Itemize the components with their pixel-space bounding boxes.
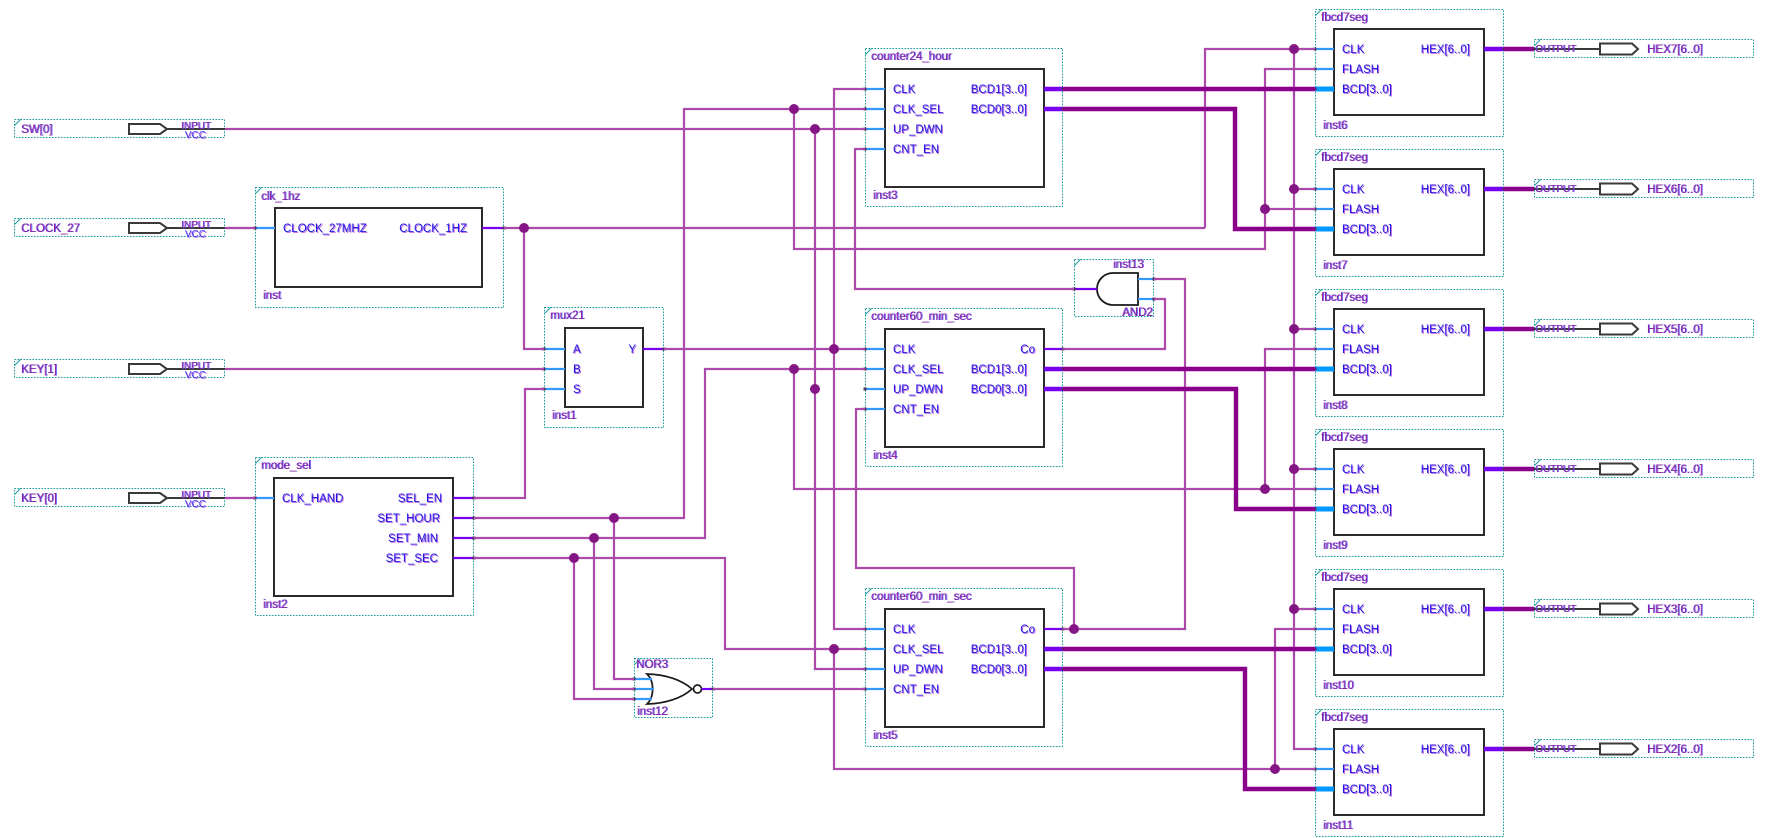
input pin KEY[0] [15,489,226,511]
svg-text:CLOCK_27MHZ: CLOCK_27MHZ [283,223,367,235]
svg-text:OUTPUT: OUTPUT [1535,604,1576,615]
bus inst5.BCD0 to inst11.BCD [1063,669,1315,789]
pin stub mux21.S [543,388,566,391]
wire net mux Y horizontal to inst4.CLK [664,348,865,350]
pin stub counter60_min_sec(inst5).UP_DWN [864,668,886,671]
svg-text:VCC: VCC [185,499,206,510]
svg-text:HEX7[6..0]: HEX7[6..0] [1647,44,1703,56]
wire net SET_SEC main run to inst5 CLK_SEL [474,558,865,649]
pin stub NOR3.in1 [633,678,653,681]
pin stub clk_1hz.CLOCK_1HZ [482,227,506,230]
svg-text:CLK_SEL: CLK_SEL [893,364,944,376]
wire net CLOCK_1HZ main horizontal [504,227,1205,229]
module mode_sel U:inst2 [256,458,474,616]
svg-text:inst13: inst13 [1113,259,1144,271]
pin stub inst9.FLASH [1314,488,1335,491]
pin stub clk_1hz.CLOCK_27MHZ [254,227,276,230]
svg-text:HEX5[6..0]: HEX5[6..0] [1647,324,1703,336]
svg-text:SW[0]: SW[0] [21,124,52,136]
svg-text:Y: Y [628,344,636,356]
junction SET_MIN node B [789,364,799,374]
bus HEX6 output [1504,187,1534,191]
pin stub mode_sel.SEL_EN [453,497,476,500]
bus stub inst4.BCD0 [1044,388,1065,391]
svg-text:CLOCK_1HZ: CLOCK_1HZ [399,223,467,235]
bus stub inst4.BCD1 [1044,368,1065,371]
svg-text:CLK_SEL: CLK_SEL [893,104,944,116]
pin stub counter60_min_sec(inst4).UP_DWN [864,388,886,391]
pin stub inst4.Co [1044,348,1065,351]
junction fbcd CLK node 1 [1289,44,1299,54]
svg-text:FLASH: FLASH [1342,344,1379,356]
output pin HEX5[6..0] [1534,320,1754,338]
svg-text:CLK: CLK [1342,324,1365,336]
svg-text:HEX4[6..0]: HEX4[6..0] [1647,464,1703,476]
wire net inst5.Co to AND2.in1 [1063,279,1185,629]
pin stub mode_sel.SET_HOUR [453,517,476,520]
pin stub mux21.Y [643,348,666,351]
wire CLOCK_27 to clk_1hz [225,227,255,229]
bus inst3.BCD1 to inst6.BCD [1063,87,1315,91]
svg-text:FLASH: FLASH [1342,204,1379,216]
svg-text:FLASH: FLASH [1342,624,1379,636]
svg-text:inst12: inst12 [637,706,668,718]
bus inst4.BCD1 to inst8.BCD [1063,367,1315,371]
wire net SET_MIN branch to minute FLASH displays [794,349,1315,489]
svg-text:BCD1[3..0]: BCD1[3..0] [971,84,1027,96]
wire net SW[0] riser x=815 feeding UP_DWN of inst4/inst5 [815,129,865,669]
wire net CLOCK_1HZ branch to mux21.A [524,228,544,349]
module clk_1hz U:inst [256,188,504,308]
pin stub mux21.A [543,348,566,351]
svg-text:OUTPUT: OUTPUT [1535,324,1576,335]
bus stub inst6.BCD [1314,88,1335,91]
wire net SW[0] horizontal to counters UP_DWN [225,128,865,130]
wire net SET_HOUR branch to hour FLASH displays [794,69,1315,249]
bus stub inst11.BCD [1314,788,1335,791]
svg-text:SEL_EN: SEL_EN [398,493,442,505]
bus stub inst5.BCD1 [1044,648,1065,651]
junction min FLASH node [1260,484,1270,494]
pin stub counter60_min_sec(inst4).CLK_SEL [864,368,886,371]
svg-text:CLK_SEL: CLK_SEL [893,644,944,656]
wire net mux Y riser x=834 to inst3.CLK and inst5.CLK [834,89,865,629]
svg-text:CLK: CLK [893,624,916,636]
module counter60_min_sec U:inst5 [866,589,1063,747]
svg-text:BCD1[3..0]: BCD1[3..0] [971,364,1027,376]
svg-text:A: A [573,344,581,356]
pin stub counter60_min_sec(inst5).CLK_SEL [864,648,886,651]
svg-text:BCD0[3..0]: BCD0[3..0] [971,104,1027,116]
junction SET_MIN node A [589,533,599,543]
svg-text:FLASH: FLASH [1342,64,1379,76]
svg-text:FLASH: FLASH [1342,764,1379,776]
svg-text:NOR3: NOR3 [636,659,668,671]
module fbcd7seg U:inst11 [1316,710,1504,837]
pin stub inst8.CLK [1314,328,1335,331]
pin stub inst5.Co [1044,628,1065,631]
pin stub inst8.FLASH [1314,348,1335,351]
svg-text:SET_MIN: SET_MIN [388,533,438,545]
svg-text:fbcd7seg: fbcd7seg [1321,712,1368,724]
svg-text:HEX3[6..0]: HEX3[6..0] [1647,604,1703,616]
wire net AND2 output to counter24 CNT_EN [855,149,1074,289]
junction fbcd CLK node 2 [1289,184,1299,194]
output pin HEX4[6..0] [1534,460,1754,478]
bus HEX7 output [1504,47,1534,51]
module mux21 U:inst1 [545,308,664,428]
input pin SW[0] [15,120,226,142]
input pin KEY[1] [15,360,226,382]
svg-text:OUTPUT: OUTPUT [1535,744,1576,755]
pin stub counter60_min_sec(inst5).CLK [864,628,886,631]
svg-text:inst10: inst10 [1323,680,1354,692]
svg-text:BCD[3..0]: BCD[3..0] [1342,644,1392,656]
svg-text:B: B [573,364,581,376]
bus stub inst10.BCD [1314,648,1335,651]
pin stub inst7.FLASH [1314,208,1335,211]
svg-text:OUTPUT: OUTPUT [1535,184,1576,195]
bus HEX5 output [1504,327,1534,331]
svg-text:CLK: CLK [1342,44,1365,56]
svg-text:UP_DWN: UP_DWN [893,384,943,396]
svg-text:HEX[6..0]: HEX[6..0] [1421,464,1470,476]
svg-text:counter60_min_sec: counter60_min_sec [871,591,972,603]
svg-text:BCD[3..0]: BCD[3..0] [1342,84,1392,96]
svg-text:Co: Co [1020,344,1035,356]
pin stub counter60_min_sec(inst4).CLK [864,348,886,351]
gate NOR3 U:inst12 [635,659,713,719]
pin stub AND2.out [1073,288,1098,291]
svg-text:BCD0[3..0]: BCD0[3..0] [971,664,1027,676]
bus stub counter24_hour.BCD0 [1044,108,1065,111]
wire net inst5.Co branch to inst4.CNT_EN [856,409,1074,629]
junction sec Co node [1069,624,1079,634]
output pin HEX6[6..0] [1534,180,1754,198]
svg-text:CLK: CLK [893,84,916,96]
pin stub inst10.FLASH [1314,628,1335,631]
pin stub counter24_hour.CLK_SEL [864,108,886,111]
svg-text:CLK: CLK [1342,184,1365,196]
svg-text:inst1: inst1 [552,410,576,422]
svg-text:counter60_min_sec: counter60_min_sec [871,311,972,323]
svg-text:clk_1hz: clk_1hz [261,191,300,203]
svg-text:BCD[3..0]: BCD[3..0] [1342,364,1392,376]
wire net SET_SEC branch to NOR3.in3 [574,558,634,699]
pin stub AND2.in2 [1138,298,1156,301]
pin stub counter60_min_sec(inst4).CNT_EN [864,408,886,411]
junction fbcd CLK node 4 [1289,464,1299,474]
svg-text:SET_HOUR: SET_HOUR [377,513,440,525]
module fbcd7seg U:inst9 [1316,430,1504,557]
svg-text:BCD[3..0]: BCD[3..0] [1342,784,1392,796]
pin stub mode_sel.CLK_HAND [254,497,275,500]
bus stub counter24_hour.BCD1 [1044,88,1065,91]
module fbcd7seg U:inst10 [1316,570,1504,697]
svg-text:HEX[6..0]: HEX[6..0] [1421,184,1470,196]
module fbcd7seg U:inst6 [1316,10,1504,137]
pin stub inst6.FLASH [1314,68,1335,71]
pin stub counter24_hour.CNT_EN [864,148,886,151]
wire net SET_HOUR main run to counter24 CLK_SEL [474,109,865,518]
wire net SET_SEC branch to second FLASH displays [834,629,1315,769]
bus inst4.BCD0 to inst9.BCD [1063,389,1315,509]
pin stub counter60_min_sec(inst5).CNT_EN [864,688,886,691]
bus stub inst8.BCD [1314,368,1335,371]
gate AND2 U:inst13 (mirrored, output left) [1075,259,1154,319]
svg-text:fbcd7seg: fbcd7seg [1321,432,1368,444]
pin stub inst10.CLK [1314,608,1335,611]
svg-text:HEX6[6..0]: HEX6[6..0] [1647,184,1703,196]
junction SET_SEC node A [569,553,579,563]
svg-text:inst5: inst5 [873,730,897,742]
bus HEX2 output [1504,747,1534,751]
svg-text:UP_DWN: UP_DWN [893,124,943,136]
pin stub counter24_hour.CLK [864,88,886,91]
svg-text:inst3: inst3 [873,190,897,202]
junction SET_HOUR node A [609,513,619,523]
wire net SET_MIN main run to inst4 CLK_SEL [474,369,865,538]
svg-text:CLK: CLK [1342,464,1365,476]
bus stub inst7.HEX [1484,188,1506,191]
svg-text:CLK: CLK [1342,604,1365,616]
wire KEY[1] to mux21.B [225,368,544,370]
pin stub mode_sel.SET_SEC [453,557,476,560]
svg-text:BCD0[3..0]: BCD0[3..0] [971,384,1027,396]
svg-text:CLK: CLK [1342,744,1365,756]
bus stub inst9.HEX [1484,468,1506,471]
bus stub inst5.BCD0 [1044,668,1065,671]
bus stub inst6.HEX [1484,48,1506,51]
svg-text:inst6: inst6 [1323,120,1347,132]
svg-text:UP_DWN: UP_DWN [893,664,943,676]
pin stub AND2.in1 [1138,278,1156,281]
svg-text:VCC: VCC [185,229,206,240]
wire net SEL_EN to mux21.S [474,389,544,498]
output pin HEX2[6..0] [1534,740,1754,758]
bus stub inst11.HEX [1484,748,1506,751]
svg-text:FLASH: FLASH [1342,484,1379,496]
bus HEX4 output [1504,467,1534,471]
svg-text:counter24_hour: counter24_hour [871,51,952,63]
svg-text:BCD[3..0]: BCD[3..0] [1342,504,1392,516]
wire net NOR3 output to inst5.CNT_EN [713,688,865,690]
svg-text:inst: inst [263,290,282,302]
output pin HEX3[6..0] [1534,600,1754,618]
svg-text:fbcd7seg: fbcd7seg [1321,292,1368,304]
svg-text:fbcd7seg: fbcd7seg [1321,572,1368,584]
junction SET_HOUR node B [789,104,799,114]
svg-text:CNT_EN: CNT_EN [893,144,939,156]
wire net SET_HOUR branch to NOR3.in1 [614,518,634,679]
wire net CLOCK_1HZ riser to fbcd7seg CLK row [1205,49,1315,228]
svg-text:inst8: inst8 [1323,400,1347,412]
bus stub inst7.BCD [1314,228,1335,231]
junction CLK node [829,344,839,354]
pin stub mode_sel.SET_MIN [453,537,476,540]
wire net CLOCK_1HZ distribution x=1294 to all fbcd7seg CLK [1294,49,1315,749]
svg-text:VCC: VCC [185,130,206,141]
junction fbcd CLK node 3 [1289,324,1299,334]
pin stub NOR3.in3 [633,698,653,701]
junction fbcd CLK node 5 [1289,604,1299,614]
pin stub inst7.CLK [1314,188,1335,191]
svg-text:mux21: mux21 [550,310,585,322]
junction SW[0] node A [810,124,820,134]
svg-text:HEX[6..0]: HEX[6..0] [1421,744,1470,756]
module fbcd7seg U:inst8 [1316,290,1504,417]
pin stub inst6.CLK [1314,48,1335,51]
svg-text:Co: Co [1020,624,1035,636]
bus HEX3 output [1504,607,1534,611]
svg-text:fbcd7seg: fbcd7seg [1321,12,1368,24]
svg-text:OUTPUT: OUTPUT [1535,44,1576,55]
module counter24_hour U:inst3 [866,49,1063,207]
wire net inst4.Co to AND2.in2 [1063,299,1165,349]
svg-text:KEY[0]: KEY[0] [21,493,57,505]
svg-text:S: S [573,384,581,396]
junction hour FLASH node [1260,204,1270,214]
svg-text:HEX[6..0]: HEX[6..0] [1421,44,1470,56]
bus inst5.BCD1 to inst10.BCD [1063,647,1315,651]
wire net SET_MIN branch to NOR3.in2 [594,538,634,689]
svg-text:inst9: inst9 [1323,540,1347,552]
svg-text:CLOCK_27: CLOCK_27 [21,223,80,235]
output pin HEX7[6..0] [1534,40,1754,58]
svg-text:OUTPUT: OUTPUT [1535,464,1576,475]
junction CLOCK_1HZ node [519,223,529,233]
svg-text:HEX[6..0]: HEX[6..0] [1421,604,1470,616]
svg-text:inst7: inst7 [1323,260,1347,272]
pin stub NOR3.in2 [633,688,655,691]
svg-text:fbcd7seg: fbcd7seg [1321,152,1368,164]
pin stub counter24_hour.UP_DWN [864,128,886,131]
svg-text:BCD[3..0]: BCD[3..0] [1342,224,1392,236]
junction sec FLASH node [1270,764,1280,774]
module counter60_min_sec U:inst4 [866,309,1063,467]
pin stub inst9.CLK [1314,468,1335,471]
module fbcd7seg U:inst7 [1316,150,1504,277]
wire KEY[0] to mode_sel.CLK_HAND [225,497,255,499]
pin stub inst11.FLASH [1314,768,1335,771]
pin stub inst11.CLK [1314,748,1335,751]
bus stub inst9.BCD [1314,508,1335,511]
svg-text:AND2: AND2 [1122,307,1153,319]
svg-text:VCC: VCC [185,370,206,381]
bus stub inst10.HEX [1484,608,1506,611]
input pin CLOCK_27 [15,219,226,241]
svg-text:HEX[6..0]: HEX[6..0] [1421,324,1470,336]
svg-text:KEY[1]: KEY[1] [21,364,57,376]
svg-text:CNT_EN: CNT_EN [893,684,939,696]
junction SW[0] node B [810,384,820,394]
junction SET_SEC node B [829,644,839,654]
svg-text:CLK_HAND: CLK_HAND [282,493,343,505]
svg-text:BCD1[3..0]: BCD1[3..0] [971,644,1027,656]
svg-text:inst2: inst2 [263,599,287,611]
pin stub NOR3.out [702,688,715,691]
svg-text:mode_sel: mode_sel [261,460,311,472]
svg-text:SET_SEC: SET_SEC [386,553,438,565]
svg-text:HEX2[6..0]: HEX2[6..0] [1647,744,1703,756]
pin stub mux21.B [543,368,566,371]
svg-text:inst4: inst4 [873,450,898,462]
bus stub inst8.HEX [1484,328,1506,331]
svg-text:CLK: CLK [893,344,916,356]
bus inst3.BCD0 to inst7.BCD [1063,109,1315,229]
svg-text:inst11: inst11 [1323,820,1353,832]
svg-text:CNT_EN: CNT_EN [893,404,939,416]
